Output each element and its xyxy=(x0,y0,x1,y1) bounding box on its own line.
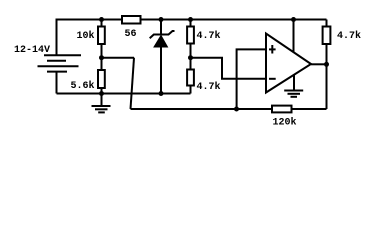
svg-text:56: 56 xyxy=(125,29,137,40)
wire 120k to output column xyxy=(292,108,327,110)
svg-text:4.7k: 4.7k xyxy=(197,30,221,42)
wire 5.6k bottom stub xyxy=(101,88,103,94)
wire slanted tap-to-feedback xyxy=(131,58,135,109)
op-amp U1 triangle xyxy=(266,34,311,93)
op-amp plus sign xyxy=(269,45,276,54)
resistor 4.7k lower (box) xyxy=(187,70,194,86)
ground (op-amp) xyxy=(284,91,303,97)
wire 4.7k lower bottom to rail xyxy=(190,86,192,94)
resistor 120k (box) xyxy=(272,106,292,113)
svg-text:4.7k: 4.7k xyxy=(337,30,361,42)
wire top rail left section xyxy=(57,20,123,55)
wire zener top stub xyxy=(160,20,162,35)
node junction dot feedback xyxy=(234,107,239,112)
wire top rail right section xyxy=(141,19,327,21)
node junction dot 5.6k bottom xyxy=(99,91,104,96)
wire op-amp ground stub xyxy=(293,75,295,91)
ground (main) xyxy=(92,106,111,112)
wire 10k top stub xyxy=(101,20,103,27)
resistor 10k (box) xyxy=(98,27,105,45)
wire between 4.7k resistors xyxy=(190,44,192,70)
wire 10k bottom to divider tap xyxy=(101,44,103,70)
wire op-amp power stub xyxy=(293,20,295,53)
svg-text:10k: 10k xyxy=(77,30,95,42)
node junction dot 10k top xyxy=(99,17,104,22)
wire feedback bottom run xyxy=(131,108,273,110)
zener diode D1 cathode bar xyxy=(150,31,175,38)
node junction dot divider tap xyxy=(99,55,104,60)
resistor 4.7k upper (box) xyxy=(187,27,194,44)
op-amp minus sign xyxy=(269,78,276,80)
wire battery negative down to bottom rail xyxy=(56,72,58,94)
node junction dot 4.7k midpoint xyxy=(188,55,193,60)
node junction dot op-amp power xyxy=(291,17,296,22)
node junction dot 4.7k top xyxy=(188,17,193,22)
svg-text:4.7k: 4.7k xyxy=(197,81,221,93)
wire ground stub below bottom rail xyxy=(101,94,103,106)
node junction dot output xyxy=(324,62,329,67)
wire right column xyxy=(326,20,328,27)
battery B1 plate short 2 xyxy=(47,60,66,62)
wire right column lower xyxy=(326,44,328,109)
battery B1 plate long 1 xyxy=(44,54,81,56)
svg-text:5.6k: 5.6k xyxy=(71,80,95,92)
wire zener bottom xyxy=(160,47,162,94)
zener diode D1 triangle (filled) xyxy=(154,36,168,48)
resistor 56 (box) xyxy=(122,16,141,24)
battery B1 plate long 3 xyxy=(38,65,79,67)
battery B1 plate short 4 xyxy=(47,71,67,73)
svg-text:120k: 120k xyxy=(273,117,297,129)
resistor 4.7k right (box) xyxy=(323,27,331,45)
wire divider tap horizontal xyxy=(102,57,135,59)
resistor 5.6k (box) xyxy=(98,70,105,88)
svg-text:12-14V: 12-14V xyxy=(14,45,50,56)
wire 4.7k top stub xyxy=(190,20,192,27)
wire inverting input route xyxy=(191,58,267,79)
wire non-inverting input route xyxy=(237,49,266,109)
wire bottom rail xyxy=(57,93,191,95)
node junction dot zener top xyxy=(159,17,164,22)
wire op-amp output xyxy=(311,63,327,65)
node junction dot zener bottom xyxy=(159,91,164,96)
